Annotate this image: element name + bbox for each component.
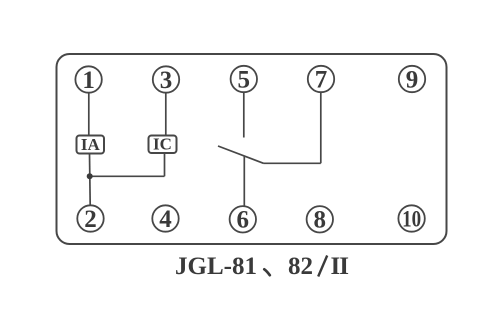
svg-text:IC: IC	[153, 135, 172, 154]
svg-text:3: 3	[160, 67, 173, 94]
svg-text:1: 1	[82, 67, 95, 94]
title slash	[318, 256, 327, 277]
svg-text:5: 5	[238, 66, 251, 93]
svg-text:7: 7	[315, 66, 328, 93]
terminal 2	[77, 205, 103, 233]
terminal 8	[307, 206, 333, 234]
wire from terminal 1 to coil IA	[88, 93, 90, 136]
junction node A	[87, 173, 93, 179]
terminal 9	[399, 66, 425, 94]
switch contact blade K	[218, 146, 264, 163]
wire from contact blade to riser	[264, 162, 321, 164]
wire from terminal 5 to contact gap	[243, 93, 245, 138]
svg-text:4: 4	[159, 206, 172, 233]
wire riser to terminal 7	[320, 92, 322, 164]
svg-text:2: 2	[84, 206, 97, 233]
svg-text:9: 9	[406, 66, 419, 93]
wire from terminal 3 to coil IC	[165, 93, 167, 136]
terminal 4	[152, 205, 178, 233]
title ideographic comma	[264, 269, 270, 275]
terminal 5	[231, 66, 257, 94]
terminal 10	[398, 205, 424, 231]
terminal 6	[230, 206, 256, 234]
svg-text:6: 6	[237, 207, 250, 234]
svg-text:10: 10	[402, 207, 421, 232]
wire common bus IC to node A	[90, 175, 165, 177]
wire from contact blade to terminal 6	[243, 156, 245, 206]
coil IA	[77, 135, 105, 154]
terminal 1	[75, 66, 101, 94]
terminal 3	[153, 66, 179, 94]
terminal 7	[308, 66, 334, 94]
svg-text:JGL-81: JGL-81	[175, 253, 257, 280]
svg-text:8: 8	[314, 207, 327, 234]
svg-text:82: 82	[288, 253, 313, 280]
wire from coil IC down to common bus	[164, 153, 166, 176]
coil IC	[149, 135, 177, 154]
wire from coil IA to terminal 2	[89, 154, 92, 206]
relay case outline	[57, 54, 447, 244]
svg-text:II: II	[331, 253, 349, 280]
svg-text:IA: IA	[81, 135, 101, 154]
